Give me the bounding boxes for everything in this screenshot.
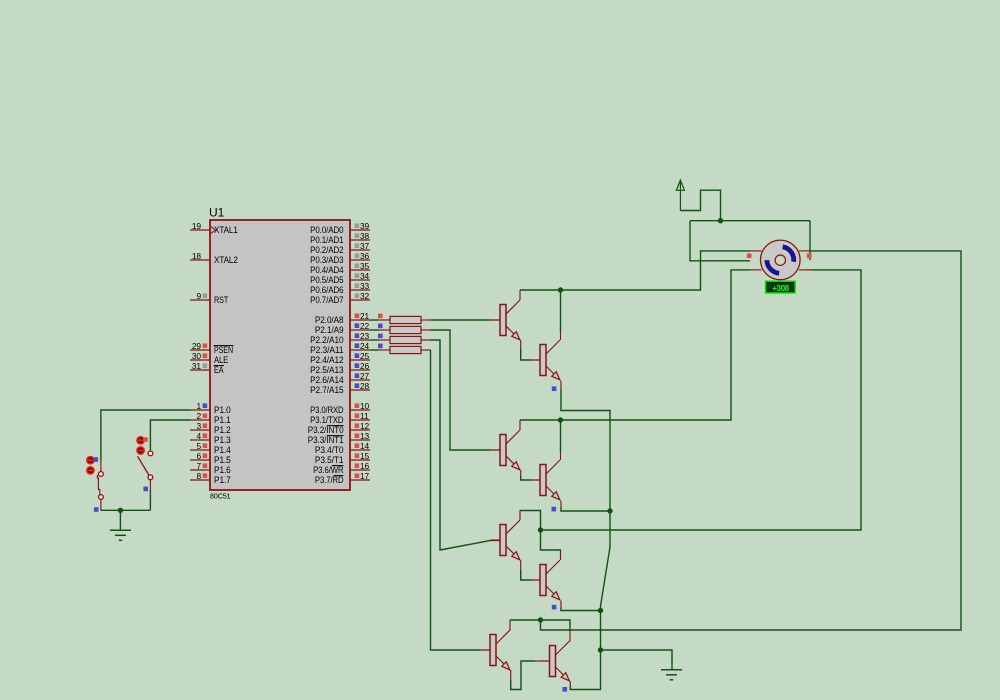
state square Q4 emitter	[552, 507, 557, 512]
pin 8 (P1.7)	[190, 471, 231, 485]
pin 4 (P1.3)	[190, 431, 231, 445]
svg-text:32: 32	[360, 291, 370, 301]
wire Q5 emitter to Q6 base	[520, 560, 522, 571]
junction ground bus / Q6 emitter	[598, 608, 603, 613]
pin 31 (EA)	[190, 361, 224, 375]
resistor R4	[379, 346, 431, 353]
junction rail A / Q2 collector	[558, 287, 563, 292]
wire Q3 base lead	[490, 449, 500, 451]
microcontroller U1 80C51	[209, 206, 350, 501]
power symbol VCC	[676, 180, 684, 211]
svg-text:EA: EA	[214, 365, 224, 375]
svg-text:P0.0/AD0: P0.0/AD0	[310, 225, 343, 235]
svg-text:P0.5/AD5: P0.5/AD5	[310, 275, 343, 285]
pin 13 (P3.3/INT1)	[308, 431, 370, 445]
wire common rail to left common terminal	[690, 221, 750, 261]
wire P1.1 to SW2	[150, 420, 190, 450]
svg-text:P2.6/A14: P2.6/A14	[310, 375, 343, 385]
svg-text:16: 16	[360, 461, 370, 471]
wire ground tap	[601, 650, 673, 670]
pin 5 (P1.4)	[190, 441, 231, 455]
svg-text:37: 37	[360, 241, 370, 251]
state square SW2 bottom	[143, 487, 148, 492]
wire Q1 collector to rail A	[519, 290, 521, 300]
svg-text:P1.1: P1.1	[214, 415, 231, 425]
pin 2 (P1.1)	[190, 411, 231, 425]
pin 17 (P3.7/RD)	[315, 471, 370, 485]
state square Q6 emitter	[552, 605, 557, 610]
transistor Q4	[530, 460, 561, 501]
transistor Q7	[480, 630, 511, 671]
wire ground bus (slanted segment)	[601, 547, 611, 651]
pin 9 (RST)	[190, 291, 229, 305]
svg-text:25: 25	[360, 351, 370, 361]
svg-text:+308: +308	[772, 284, 789, 293]
actuator arrows SW1	[87, 457, 94, 475]
wire Q2 collector up to rail A	[560, 331, 562, 340]
svg-text:4: 4	[196, 431, 201, 441]
wire P2.0 pin to resistor R1	[370, 319, 379, 321]
wire common rail to right common terminal	[809, 221, 811, 260]
pin 24 (P2.3/A11)	[310, 341, 370, 355]
wire rail D jog	[541, 620, 571, 630]
wire Q1 emitter to Q2 base	[520, 340, 522, 350]
wire R2 to Q3 base	[431, 330, 491, 450]
svg-text:P0.6/AD6: P0.6/AD6	[310, 285, 343, 295]
resistor R1	[379, 316, 431, 323]
svg-text:15: 15	[360, 451, 370, 461]
svg-text:10: 10	[360, 401, 370, 411]
transistor Q6	[530, 560, 561, 601]
wire Q6 collector jog up to rail C	[560, 551, 562, 560]
svg-text:31: 31	[192, 361, 202, 371]
net state square P2.3	[378, 344, 383, 349]
wire P1.0 to SW1	[101, 410, 190, 460]
svg-text:P2.1/A9: P2.1/A9	[315, 325, 344, 335]
pin 12 (P3.2/INT0)	[308, 421, 370, 435]
switch SW2	[138, 450, 153, 492]
svg-text:P3.1/TXD: P3.1/TXD	[310, 415, 344, 425]
svg-text:U1: U1	[209, 206, 225, 220]
svg-text:14: 14	[360, 441, 370, 451]
pin 15 (P3.5/T1)	[315, 451, 370, 465]
wire Q3 collector to rail B	[519, 420, 521, 430]
wire R4 to Q7 base	[431, 350, 481, 650]
wire Q3 emitter to Q4 base	[520, 470, 522, 477]
pin 26 (P2.5/A13)	[310, 361, 370, 375]
svg-text:8: 8	[196, 471, 201, 481]
pin 28 (P2.7/A15)	[310, 381, 370, 395]
wire P2.3 pin to resistor R4	[370, 349, 379, 351]
pin 38 (P0.1/AD1)	[310, 231, 370, 245]
svg-text:XTAL2: XTAL2	[214, 255, 238, 265]
pin 11 (P3.1/TXD)	[310, 411, 370, 425]
svg-text:38: 38	[360, 231, 370, 241]
svg-text:9: 9	[196, 291, 201, 301]
svg-text:6: 6	[196, 451, 201, 461]
svg-text:34: 34	[360, 271, 370, 281]
svg-text:33: 33	[360, 281, 370, 291]
svg-text:3: 3	[196, 421, 201, 431]
clock chevron on XTAL1	[211, 227, 215, 234]
wire Q2 emitter down to ground bus	[560, 381, 562, 391]
wire motor common rail (y=221)	[690, 220, 810, 222]
svg-text:P3.4/T0: P3.4/T0	[315, 445, 344, 455]
svg-text:26: 26	[360, 361, 370, 371]
motor terminal state square (right)	[807, 253, 812, 258]
svg-text:17: 17	[360, 471, 370, 481]
svg-text:P0.7/AD7: P0.7/AD7	[310, 295, 343, 305]
pin 35 (P0.4/AD4)	[310, 261, 370, 275]
pin 21 (P2.0/A8)	[315, 311, 370, 325]
wire Q7 emitter U-jog to Q8 base	[510, 670, 512, 681]
svg-text:7: 7	[196, 461, 201, 471]
pin 10 (P3.0/RXD)	[310, 401, 370, 415]
svg-text:P2.7/A15: P2.7/A15	[310, 385, 343, 395]
pin 27 (P2.6/A14)	[310, 371, 370, 385]
svg-text:P0.3/AD3: P0.3/AD3	[310, 255, 343, 265]
pin 3 (P1.2)	[190, 421, 231, 435]
net state square P2.0	[378, 314, 383, 319]
wire SW2 bottom to common	[149, 490, 151, 510]
svg-text:13: 13	[360, 431, 370, 441]
pin 30 (ALE)	[190, 351, 228, 365]
wire Q5 collector to rail C	[519, 510, 521, 520]
svg-text:1: 1	[196, 401, 201, 411]
svg-text:P0.2/AD2: P0.2/AD2	[310, 245, 343, 255]
svg-text:P3.2/INT0: P3.2/INT0	[308, 425, 344, 435]
svg-text:P1.3: P1.3	[214, 435, 231, 445]
svg-text:P1.0: P1.0	[214, 405, 231, 415]
wire Q5 base lead	[490, 540, 500, 542]
ground (left)	[110, 530, 131, 540]
svg-text:P3.5/T1: P3.5/T1	[315, 455, 344, 465]
svg-text:XTAL1: XTAL1	[214, 225, 238, 235]
svg-text:80C51: 80C51	[210, 492, 231, 501]
wire rail D (y=620/630) to motor coil 4	[510, 619, 541, 621]
svg-text:19: 19	[192, 221, 202, 231]
svg-text:P3.6/WR: P3.6/WR	[313, 465, 344, 475]
svg-text:P2.5/A13: P2.5/A13	[310, 365, 343, 375]
junction rail C	[538, 527, 543, 532]
transistor Q8	[540, 641, 571, 682]
pin 34 (P0.5/AD5)	[310, 271, 370, 285]
state square SW1 top	[94, 457, 99, 462]
wire Q4 emitter to ground bus	[560, 501, 562, 509]
junction ground bus / Q4 emitter	[607, 508, 612, 513]
resistor R2	[379, 326, 431, 333]
stepper motor M1	[750, 240, 811, 280]
svg-text:39: 39	[360, 221, 370, 231]
svg-text:P2.0/A8: P2.0/A8	[315, 315, 344, 325]
svg-text:P3.0/RXD: P3.0/RXD	[310, 405, 344, 415]
svg-text:28: 28	[360, 381, 370, 391]
pin 18 (XTAL2)	[190, 251, 238, 265]
switch SW1	[97, 460, 103, 511]
svg-text:24: 24	[360, 341, 370, 351]
wire Q4 collector up to rail B	[560, 451, 562, 460]
junction ground bus / ground tap	[598, 647, 603, 652]
svg-text:P1.5: P1.5	[214, 455, 231, 465]
svg-text:29: 29	[192, 341, 202, 351]
pin 32 (P0.7/AD7)	[310, 291, 370, 305]
pin 37 (P0.2/AD2)	[310, 241, 370, 255]
wire Q8 emitter to ground bus	[569, 682, 571, 688]
svg-text:36: 36	[360, 251, 370, 261]
svg-text:P0.1/AD1: P0.1/AD1	[310, 235, 343, 245]
state square SW2 top	[143, 437, 148, 442]
actuator arrows SW2	[137, 437, 144, 455]
svg-text:22: 22	[360, 321, 370, 331]
transistor Q5	[490, 520, 521, 561]
wire rail B (y=420) to motor coil 2	[520, 270, 750, 420]
pin 39 (P0.0/AD0)	[310, 221, 370, 235]
svg-text:35: 35	[360, 261, 370, 271]
wire Q7 collector to rail D	[509, 620, 511, 631]
pin 16 (P3.6/WR)	[313, 461, 370, 475]
svg-text:2: 2	[196, 411, 201, 421]
wire rail A (y=290) to motor coil 1	[520, 251, 750, 290]
wire VCC zigzag to motor common rail	[680, 190, 720, 221]
wire Q8 collector up to rail D	[569, 630, 571, 642]
svg-text:5: 5	[196, 441, 201, 451]
transistor Q1	[490, 300, 521, 341]
svg-text:P1.7: P1.7	[214, 475, 231, 485]
junction VCC / common rail	[718, 218, 723, 223]
pin 36 (P0.3/AD3)	[310, 251, 370, 265]
svg-text:27: 27	[360, 371, 370, 381]
svg-text:30: 30	[192, 351, 202, 361]
svg-text:P0.4/AD4: P0.4/AD4	[310, 265, 343, 275]
state square Q2 emitter	[552, 386, 557, 391]
junction rail D	[538, 617, 543, 622]
pin 1 (P1.0)	[190, 401, 231, 415]
pin 23 (P2.2/A10)	[310, 331, 370, 345]
motor terminal state square (left)	[747, 253, 752, 258]
wire P2.2 pin to resistor R3	[370, 339, 379, 341]
motor angle display +308	[766, 281, 795, 293]
pin 33 (P0.6/AD6)	[310, 281, 370, 295]
transistor Q3	[490, 430, 521, 471]
svg-text:23: 23	[360, 331, 370, 341]
svg-text:11: 11	[360, 411, 369, 421]
svg-text:P2.4/A12: P2.4/A12	[310, 355, 343, 365]
pin 19 (XTAL1)	[190, 221, 238, 235]
svg-text:18: 18	[192, 251, 202, 261]
svg-text:12: 12	[360, 421, 370, 431]
junction rail B / Q4 collector	[558, 417, 563, 422]
svg-text:P1.4: P1.4	[214, 445, 231, 455]
svg-text:P2.3/A11: P2.3/A11	[310, 345, 343, 355]
pin 29 (PSEN)	[190, 341, 234, 355]
wire ground stem (left)	[119, 510, 121, 530]
wire R3 to Q5 base	[431, 340, 491, 550]
wire switch common to ground	[101, 509, 150, 511]
wire rail C (y=530) to motor coil 3	[520, 270, 861, 530]
svg-text:RST: RST	[214, 295, 229, 305]
ground (right)	[661, 670, 682, 680]
svg-text:21: 21	[360, 311, 370, 321]
pin 14 (P3.4/T0)	[315, 441, 370, 455]
resistor R3	[379, 336, 431, 343]
svg-text:P1.6: P1.6	[214, 465, 231, 475]
svg-text:ALE: ALE	[214, 355, 228, 365]
transistor Q2	[530, 340, 561, 381]
wire R1 to Q1 base	[431, 319, 491, 321]
net state square P2.1	[378, 324, 383, 329]
pin 25 (P2.4/A12)	[310, 351, 370, 365]
pin 6 (P1.5)	[190, 451, 231, 465]
svg-text:P2.2/A10: P2.2/A10	[310, 335, 343, 345]
pin 22 (P2.1/A9)	[315, 321, 370, 335]
svg-text:P1.2: P1.2	[214, 425, 231, 435]
wire Q1 base lead	[490, 319, 500, 321]
svg-text:PSEN: PSEN	[214, 345, 233, 355]
pin 7 (P1.6)	[190, 461, 231, 475]
state square SW1 bottom	[94, 507, 99, 512]
state square Q8 emitter	[563, 687, 568, 692]
svg-text:P3.7/RD: P3.7/RD	[315, 475, 344, 485]
wire P2.1 pin to resistor R2	[370, 329, 379, 331]
wire Q6 emitter to ground bus	[560, 601, 562, 609]
svg-text:P3.3/INT1: P3.3/INT1	[308, 435, 344, 445]
net state square P2.2	[378, 334, 383, 339]
junction switch common	[118, 508, 123, 513]
wire Q7 base lead	[480, 649, 490, 651]
